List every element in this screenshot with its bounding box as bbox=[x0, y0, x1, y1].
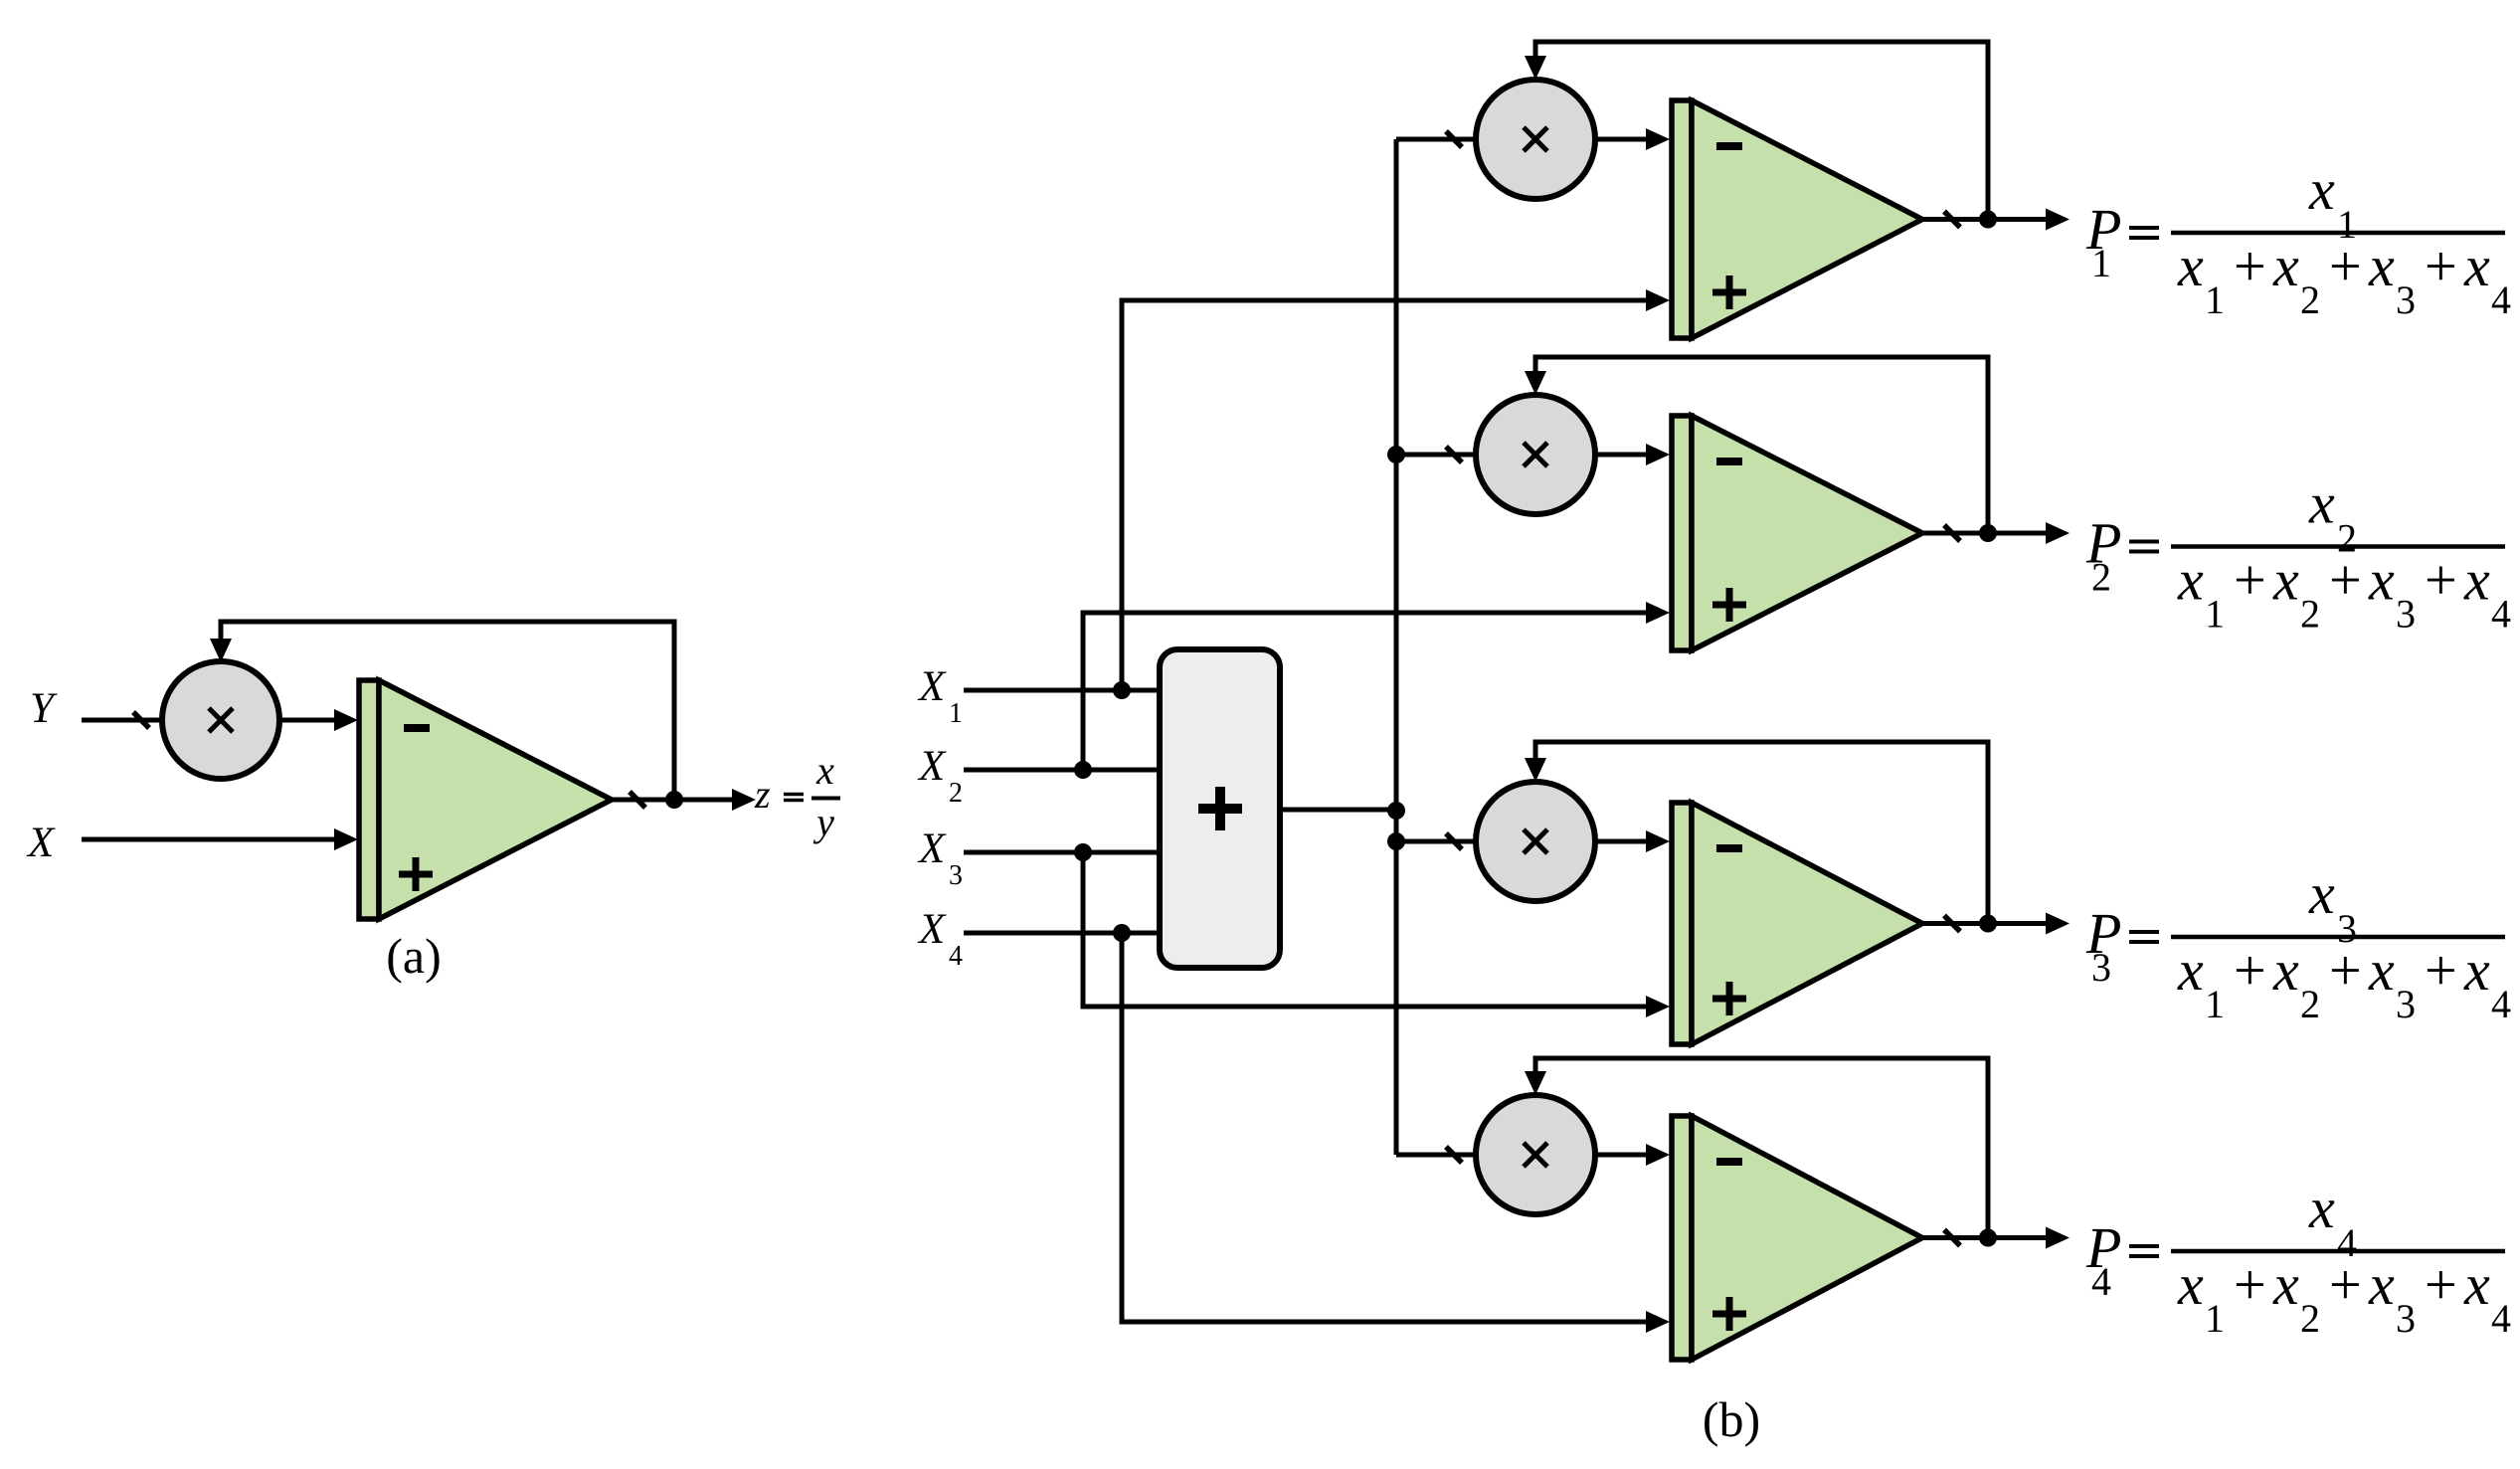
svg-text:+: + bbox=[2329, 234, 2362, 298]
svg-text:1: 1 bbox=[2205, 982, 2225, 1026]
svg-text:x: x bbox=[2308, 157, 2335, 222]
svg-text:+: + bbox=[2425, 938, 2457, 1003]
svg-text:X: X bbox=[917, 906, 947, 953]
svg-text:x: x bbox=[2272, 548, 2299, 613]
svg-text:x: x bbox=[2463, 548, 2490, 613]
svg-text:2: 2 bbox=[2091, 555, 2111, 600]
svg-text:+: + bbox=[2425, 548, 2457, 613]
svg-text:z: z bbox=[754, 772, 771, 817]
svg-text:x: x bbox=[2177, 234, 2204, 298]
svg-text:x: x bbox=[2177, 938, 2204, 1003]
svg-text:(a): (a) bbox=[386, 928, 442, 984]
svg-text:4: 4 bbox=[2491, 277, 2511, 322]
svg-text:+: + bbox=[2425, 1252, 2457, 1317]
svg-text:+: + bbox=[2234, 234, 2266, 298]
svg-text:2: 2 bbox=[949, 778, 963, 809]
svg-text:x: x bbox=[2177, 1252, 2204, 1317]
svg-text:X: X bbox=[917, 743, 947, 790]
svg-text:x: x bbox=[2308, 861, 2335, 926]
svg-text:x: x bbox=[2272, 938, 2299, 1003]
svg-text:2: 2 bbox=[2300, 592, 2320, 637]
svg-text:x: x bbox=[2368, 938, 2395, 1003]
svg-text:+: + bbox=[2329, 938, 2362, 1003]
svg-text:x: x bbox=[2272, 234, 2299, 298]
svg-text:x: x bbox=[815, 748, 834, 793]
svg-text:+: + bbox=[2234, 548, 2266, 613]
svg-text:4: 4 bbox=[2091, 1259, 2111, 1304]
svg-text:+: + bbox=[2425, 234, 2457, 298]
svg-text:4: 4 bbox=[949, 941, 963, 972]
svg-text:2: 2 bbox=[2300, 982, 2320, 1026]
svg-text:1: 1 bbox=[949, 698, 963, 729]
svg-text:X: X bbox=[917, 826, 947, 872]
svg-text:x: x bbox=[2308, 471, 2335, 536]
svg-text:Y: Y bbox=[30, 685, 58, 732]
svg-text:+: + bbox=[2329, 548, 2362, 613]
svg-text:3: 3 bbox=[949, 860, 963, 891]
svg-text:+: + bbox=[2234, 1252, 2266, 1317]
svg-text:3: 3 bbox=[2396, 277, 2416, 322]
svg-text:3: 3 bbox=[2091, 945, 2111, 990]
svg-text:x: x bbox=[2368, 234, 2395, 298]
svg-text:(b): (b) bbox=[1703, 1391, 1760, 1447]
svg-text:X: X bbox=[917, 663, 947, 710]
svg-text:+: + bbox=[2234, 938, 2266, 1003]
svg-text:4: 4 bbox=[2491, 592, 2511, 637]
svg-text:3: 3 bbox=[2396, 1296, 2416, 1341]
svg-text:2: 2 bbox=[2300, 1296, 2320, 1341]
svg-text:3: 3 bbox=[2396, 982, 2416, 1026]
svg-text:4: 4 bbox=[2491, 1296, 2511, 1341]
svg-text:3: 3 bbox=[2396, 592, 2416, 637]
svg-text:2: 2 bbox=[2300, 277, 2320, 322]
svg-text:x: x bbox=[2463, 1252, 2490, 1317]
svg-text:X: X bbox=[26, 820, 56, 866]
svg-text:x: x bbox=[2177, 548, 2204, 613]
svg-text:y: y bbox=[812, 800, 834, 844]
svg-text:+: + bbox=[2329, 1252, 2362, 1317]
svg-text:x: x bbox=[2368, 548, 2395, 613]
svg-text:1: 1 bbox=[2205, 1296, 2225, 1341]
svg-text:x: x bbox=[2368, 1252, 2395, 1317]
svg-text:1: 1 bbox=[2205, 592, 2225, 637]
svg-text:1: 1 bbox=[2091, 241, 2111, 285]
svg-text:x: x bbox=[2463, 938, 2490, 1003]
svg-text:x: x bbox=[2308, 1176, 2335, 1240]
svg-text:4: 4 bbox=[2491, 982, 2511, 1026]
svg-text:1: 1 bbox=[2205, 277, 2225, 322]
svg-text:x: x bbox=[2272, 1252, 2299, 1317]
svg-text:x: x bbox=[2463, 234, 2490, 298]
